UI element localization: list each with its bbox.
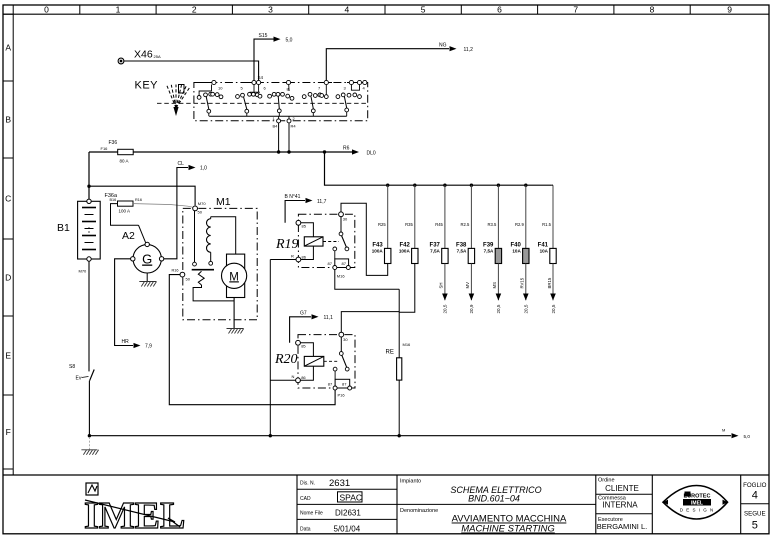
fuse F41 10A wire label R1.5 (552, 185, 554, 248)
svg-text:R20: R20 (274, 352, 298, 367)
svg-text:50: 50 (186, 277, 191, 282)
svg-text:2631: 2631 (329, 478, 350, 489)
wire node R6 to sheet DL0 (325, 151, 353, 153)
svg-text:M70: M70 (198, 201, 207, 206)
svg-text:B: B (5, 115, 11, 125)
svg-text:SH: SH (439, 283, 444, 289)
svg-text:86: 86 (301, 375, 306, 380)
starter M1 enclosure (dash-dot) (183, 208, 257, 319)
svg-text:Ev: Ev (76, 376, 82, 382)
svg-text:A2: A2 (122, 230, 135, 242)
svg-text:7,5A: 7,5A (457, 249, 467, 254)
wire F42/RE node to R20 contact 30 (341, 312, 399, 333)
svg-text:5/01/04: 5/01/04 (334, 524, 361, 533)
alternator G (A2) (139, 225, 146, 242)
svg-text:5: 5 (752, 520, 758, 532)
wire node S15 to sheet 5,0 (254, 39, 274, 81)
svg-text:IMEL: IMEL (84, 495, 185, 537)
svg-text:80 A: 80 A (120, 159, 129, 164)
svg-text:F43: F43 (372, 242, 383, 248)
R20 coil (300, 343, 313, 357)
junction dots on fuse bus (386, 184, 389, 187)
svg-text:M: M (722, 428, 725, 433)
R19 contact 30 (339, 212, 344, 217)
R19 contact blade (342, 236, 347, 248)
svg-text:87: 87 (328, 261, 333, 266)
wire node B N.41 to sheet 11,7 (285, 201, 305, 223)
wire terminal 50 to R20 contact 87 (169, 275, 335, 405)
wire F38 output to sheet 20,9 (MV) (470, 264, 472, 301)
key head glyph (179, 85, 185, 94)
title block frame (3, 474, 769, 476)
svg-text:SPAC: SPAC (340, 493, 363, 503)
key output terminals 1/B4 2/R4 (278, 116, 280, 119)
key contact 10 internal wire (199, 85, 211, 96)
solenoid actuator link (198, 271, 204, 285)
svg-text:8: 8 (650, 4, 655, 14)
svg-text:F39: F39 (483, 242, 494, 248)
svg-text:F40: F40 (510, 242, 521, 248)
svg-text:87: 87 (328, 381, 333, 386)
svg-text:7: 7 (573, 4, 578, 14)
svg-text:4: 4 (344, 4, 349, 14)
svg-text:25A: 25A (154, 54, 161, 59)
R19 terminal 86 (296, 257, 301, 262)
motor M (227, 254, 245, 297)
title rows left column (297, 488, 397, 490)
wire F37 output to sheet 20,5 (SH) (444, 264, 446, 301)
key contact S4 internal wires (253, 85, 255, 93)
svg-text:85: 85 (302, 224, 307, 229)
wire R4 to bus (288, 123, 290, 152)
svg-text:86: 86 (302, 254, 307, 259)
svg-text:DL0: DL0 (367, 150, 376, 156)
wire R19 87 to RE node (335, 270, 399, 290)
svg-text:HR: HR (122, 339, 130, 345)
svg-text:MS: MS (492, 282, 497, 289)
key manual-actuator symbol (fan of dashed rays with arrow) (167, 85, 191, 109)
svg-text:2: 2 (192, 4, 197, 14)
key contact 8 internal wire (288, 85, 290, 91)
svg-text:9: 9 (727, 4, 732, 14)
svg-text:EUROTEC: EUROTEC (684, 494, 711, 500)
svg-text:1,0: 1,0 (200, 166, 207, 172)
fuse F36 80A (118, 149, 134, 154)
wire node G7 to sheet 11,1 (290, 317, 311, 343)
key block centre dashed line (157, 102, 368, 104)
wire bus corner down to battery (88, 152, 90, 201)
solenoid coil (207, 219, 211, 253)
svg-text:6: 6 (497, 4, 502, 14)
wire R19 86 to ground bus (270, 259, 296, 261)
ground at S8 (88, 437, 90, 450)
key top-edge contact circles (212, 80, 216, 84)
svg-text:3: 3 (268, 4, 273, 14)
wire F39 output to sheet 20,5 (MS) (497, 264, 499, 301)
svg-text:CLIENTE: CLIENTE (605, 484, 639, 493)
R20 terminal 85 (296, 340, 301, 345)
wire G left terminal to HR arrow (115, 259, 133, 346)
svg-text:87: 87 (342, 381, 347, 386)
svg-text:1: 1 (116, 4, 121, 14)
fuse F38 7,5A wire label R2.5 (470, 185, 472, 248)
svg-text:G: G (142, 252, 152, 267)
wire B4 to bus (278, 123, 280, 152)
svg-text:100 A: 100 A (119, 209, 131, 214)
fuse F42 100A wire label R35 (414, 185, 416, 248)
junction dots on ground bus (88, 434, 91, 437)
terminal X46 (118, 58, 124, 64)
svg-text:S15: S15 (259, 33, 268, 39)
svg-text:30: 30 (343, 337, 348, 342)
svg-text:10A: 10A (512, 249, 521, 254)
starter solenoid terminal M70/50 (193, 206, 198, 211)
svg-text:M: M (229, 271, 239, 283)
svg-text:R1.5: R1.5 (542, 222, 552, 227)
wire F41 output to sheet 20,5 (BR15) (552, 264, 554, 301)
svg-text:Dis. N.: Dis. N. (300, 481, 315, 487)
svg-text:A: A (5, 43, 11, 53)
svg-text:R4: R4 (291, 124, 297, 129)
starter input terminal 50 on enclosure (180, 272, 185, 277)
R19 coil-contact link (dashed) (323, 241, 339, 243)
svg-text:20,5: 20,5 (551, 304, 556, 313)
svg-text:BND.601−04: BND.601−04 (468, 494, 520, 504)
R20 contacts 87-87 (334, 371, 336, 379)
svg-text:85: 85 (301, 344, 306, 349)
svg-text:R: R (291, 253, 294, 258)
svg-text:F16: F16 (101, 146, 109, 151)
wire coil top to motor (211, 217, 236, 254)
wire feeder to fuse bus (325, 152, 552, 185)
main bus wire from battery to R6 arrow (89, 151, 118, 153)
junction dot bus to fuse-bank feeder (323, 150, 326, 153)
key block solid top-edge wire segments (194, 82, 216, 84)
svg-text:Impianto: Impianto (400, 479, 421, 485)
svg-text:20,9: 20,9 (469, 304, 474, 313)
svg-text:R45: R45 (435, 222, 443, 227)
fuse F39 7,5A wire label R3.5 (497, 185, 499, 248)
wire X46 to key contact S4 (129, 61, 259, 81)
svg-text:M16: M16 (337, 274, 346, 279)
svg-text:R2.5: R2.5 (461, 222, 471, 227)
svg-text:R16: R16 (135, 198, 142, 202)
svg-text:B16: B16 (110, 198, 117, 202)
svg-text:4: 4 (752, 490, 758, 502)
svg-text:G7: G7 (300, 311, 307, 317)
svg-text:SEGUE: SEGUE (744, 511, 766, 518)
svg-text:87: 87 (342, 261, 347, 266)
junction dot battery branch (87, 185, 90, 188)
svg-text:MV: MV (465, 282, 470, 289)
svg-text:M1: M1 (216, 196, 231, 208)
svg-text:7,5A: 7,5A (430, 249, 440, 254)
svg-text:R3.5: R3.5 (488, 222, 498, 227)
svg-text:Data: Data (300, 527, 311, 533)
solenoid contact bridge (192, 269, 214, 271)
fuse F37 7,5A wire label R45 (444, 185, 446, 248)
ground bus wire to sheet 5,0 (89, 435, 731, 437)
svg-text:20,5: 20,5 (443, 304, 448, 313)
svg-text:R19: R19 (275, 237, 299, 252)
svg-text:R6: R6 (343, 146, 350, 152)
wire battery junction to starter terminal M70 (89, 186, 195, 205)
wire node NG to sheet 11,2 (326, 49, 449, 81)
key contact 7 internal wire (325, 85, 327, 95)
svg-text:CAD: CAD (300, 496, 311, 502)
svg-text:30: 30 (343, 217, 348, 222)
svg-text:B N°41: B N°41 (285, 194, 301, 200)
svg-text:M16: M16 (403, 342, 412, 347)
svg-text:NG: NG (439, 42, 447, 48)
svg-text:CL: CL (178, 161, 185, 167)
svg-text:F: F (6, 427, 11, 437)
svg-text:N: N (292, 374, 295, 379)
svg-text:S8: S8 (69, 364, 75, 370)
svg-text:BERGAMINI L.: BERGAMINI L. (597, 522, 647, 531)
svg-text:2: 2 (293, 117, 295, 121)
svg-text:B4: B4 (273, 124, 279, 129)
svg-text:D: D (5, 273, 11, 283)
svg-text:RV15: RV15 (520, 277, 525, 288)
svg-text:100A: 100A (399, 249, 411, 254)
wire G right terminal / CL node (164, 168, 188, 259)
R19 contacts 87-87 (334, 251, 336, 259)
svg-text:20,5: 20,5 (524, 304, 529, 313)
svg-text:R25: R25 (378, 222, 386, 227)
svg-text:R35: R35 (405, 222, 413, 227)
solenoid feed wire (194, 211, 196, 262)
svg-text:F42: F42 (399, 242, 410, 248)
svg-text:FOGLIO: FOGLIO (743, 482, 767, 489)
svg-text:IMEL: IMEL (691, 500, 703, 506)
key contacts 3-4 bracket (351, 85, 359, 91)
svg-text:F41: F41 (538, 242, 549, 248)
svg-text:C: C (5, 194, 11, 204)
ground below G (146, 273, 148, 282)
svg-text:5: 5 (421, 4, 426, 14)
key internal contact circles row (197, 96, 201, 100)
R20 terminal 86 (296, 378, 301, 383)
svg-text:MACHINE STARTING: MACHINE STARTING (461, 524, 555, 535)
svg-text:KEY: KEY (135, 79, 159, 91)
R20 contact 30 (339, 332, 344, 337)
svg-text:5,0: 5,0 (744, 434, 751, 439)
svg-text:DI2631: DI2631 (335, 508, 361, 517)
svg-text:Nome File: Nome File (300, 511, 323, 517)
thin wire R16 fuse to starter (133, 204, 193, 208)
R20 contact blade (342, 355, 347, 367)
title rows right column (596, 493, 653, 495)
svg-text:S4: S4 (258, 75, 264, 80)
svg-text:P16: P16 (338, 393, 346, 398)
svg-text:50: 50 (198, 210, 203, 215)
svg-text:R2.9: R2.9 (515, 222, 525, 227)
svg-text:10: 10 (218, 86, 223, 91)
key switch block S (dash-dot enclosure) (194, 83, 368, 121)
svg-text:F37: F37 (430, 242, 441, 248)
key internal bus wire (209, 115, 347, 117)
svg-text:B1: B1 (57, 222, 70, 234)
svg-text:7,9: 7,9 (145, 344, 152, 350)
svg-text:0: 0 (44, 4, 49, 14)
svg-text:E: E (5, 351, 11, 361)
wire F42 to R20 terminal 30 (399, 264, 415, 313)
key movable blades and lower contacts (206, 97, 209, 110)
svg-text:D E S I G N: D E S I G N (680, 508, 715, 513)
svg-text:INTERNA: INTERNA (602, 500, 638, 509)
fuse F43 100A wire label R25 (387, 185, 389, 248)
fuse F40 10A wire label R2.9 (525, 185, 527, 248)
svg-text:X46: X46 (134, 49, 153, 61)
svg-text:BR15: BR15 (547, 277, 552, 288)
motor ground (233, 298, 235, 329)
svg-text:Ordine: Ordine (598, 478, 615, 484)
frame top coordinate band (3, 13, 769, 15)
svg-text:F38: F38 (456, 242, 467, 248)
resistor RE (398, 289, 400, 358)
R20 coil-contact link (dashed) (324, 360, 339, 362)
svg-text:100A: 100A (372, 249, 384, 254)
svg-text:11,7: 11,7 (317, 199, 327, 205)
svg-text:11,1: 11,1 (324, 315, 334, 321)
wire F40 output to sheet 20,5 (RV15) (525, 264, 527, 301)
wire F43 to R19 terminal 30 (341, 203, 388, 275)
company logo lens (663, 486, 728, 520)
svg-text:7,5A: 7,5A (484, 249, 494, 254)
R19 terminal 85 (296, 220, 301, 225)
wire battery negative to switch S8 (88, 261, 90, 371)
R19 coil (301, 223, 314, 237)
svg-text:10A: 10A (540, 249, 549, 254)
svg-text:RE: RE (386, 350, 394, 356)
wire F36a to alternator B+ (111, 204, 139, 226)
svg-text:11,2: 11,2 (464, 47, 474, 53)
svg-text:R16: R16 (172, 269, 179, 273)
relay R20 enclosure (298, 335, 355, 388)
frame left coordinate band (12, 14, 14, 475)
svg-text:1: 1 (273, 117, 275, 121)
relay R19 enclosure (298, 214, 354, 267)
svg-text:Denominazione: Denominazione (400, 508, 438, 514)
wire R20 86 to ground bus (270, 379, 295, 381)
svg-text:M70: M70 (79, 269, 88, 274)
svg-text:5,0: 5,0 (286, 37, 293, 43)
svg-text:20,5: 20,5 (496, 304, 501, 313)
svg-text:F36: F36 (109, 140, 118, 146)
junction dots B4/R4 on bus (277, 150, 280, 153)
